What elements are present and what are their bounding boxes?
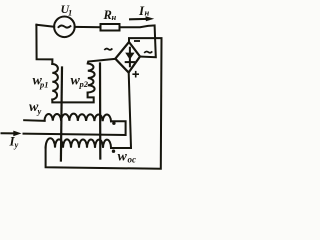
svg-text:p1: p1 [39, 80, 49, 90]
svg-text:ос: ос [128, 155, 137, 165]
svg-text:н: н [145, 8, 150, 18]
svg-text:у: у [14, 140, 19, 150]
svg-text:R: R [103, 8, 112, 22]
svg-text:1: 1 [68, 8, 72, 18]
svg-text:p2: p2 [79, 79, 89, 89]
svg-text:w: w [118, 149, 128, 164]
svg-text:у: у [37, 106, 42, 116]
svg-text:н: н [112, 12, 117, 22]
